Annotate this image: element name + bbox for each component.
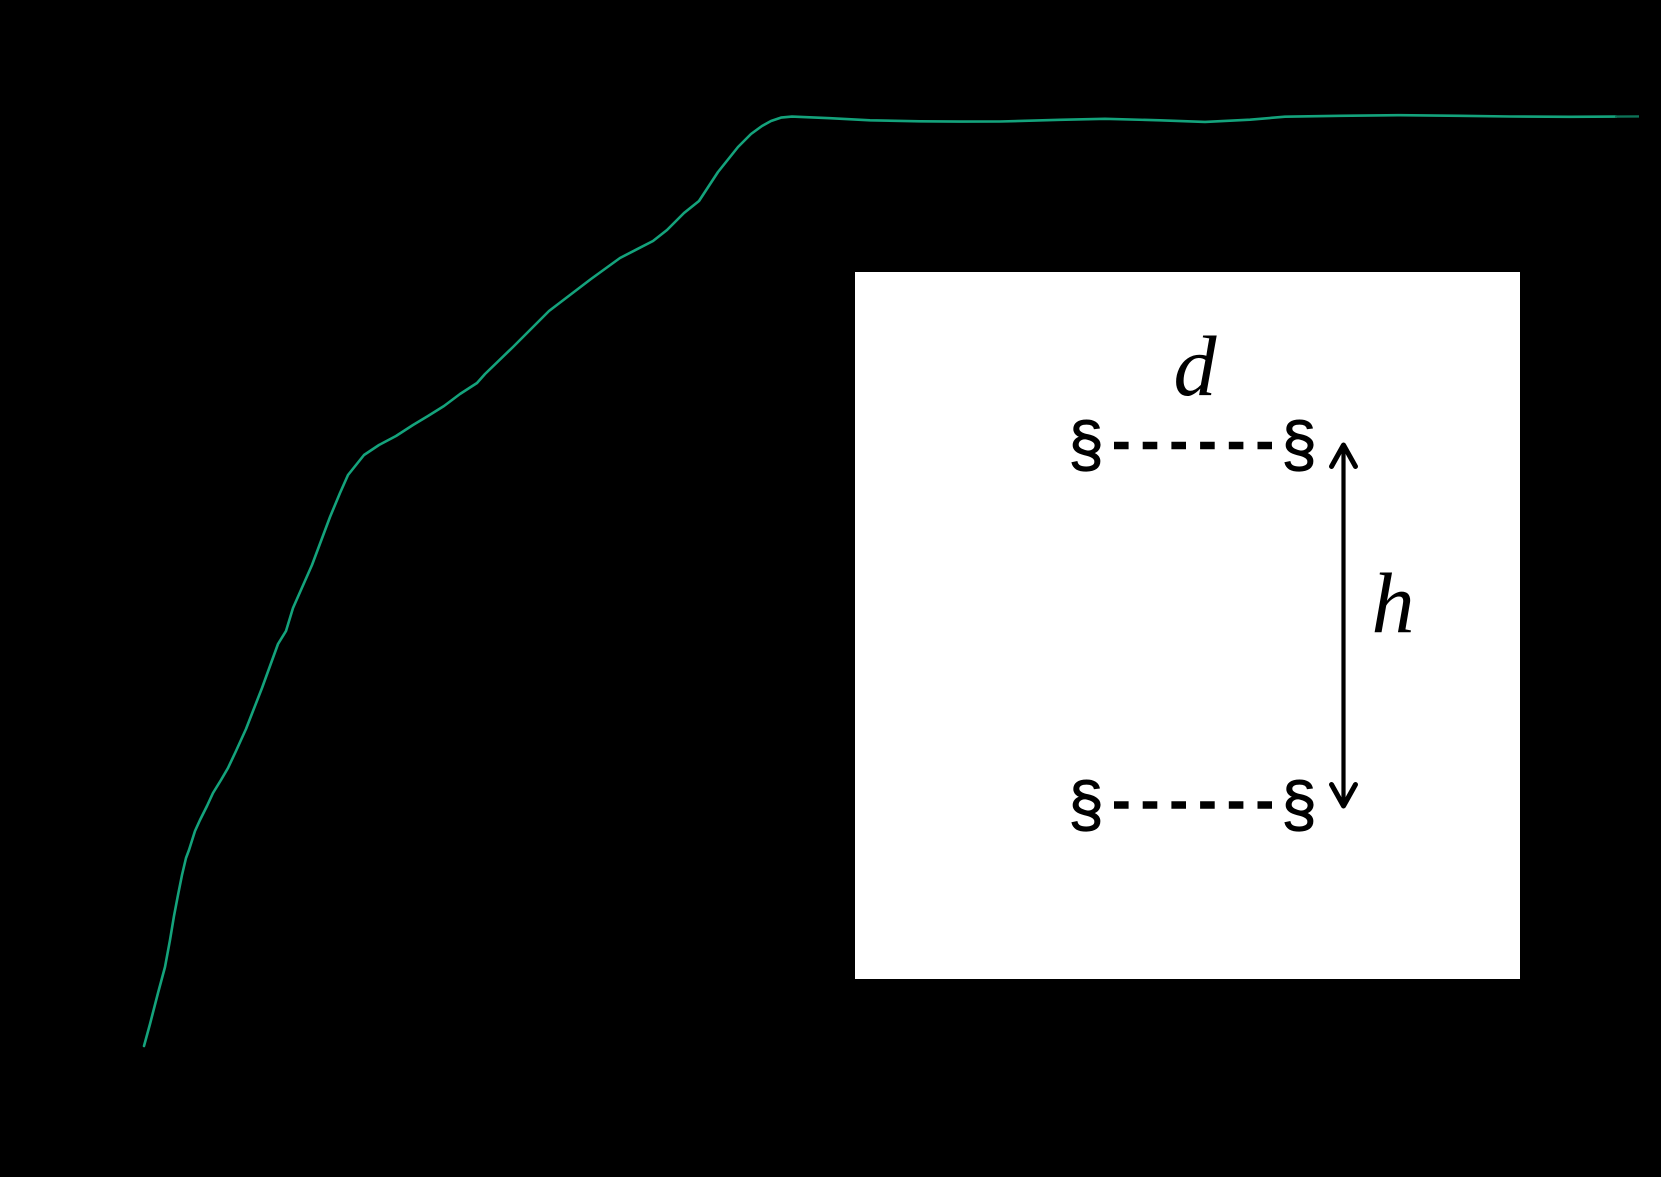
svg-text:§: §	[1068, 410, 1103, 480]
curve: green data line	[144, 115, 1616, 1046]
arrowhead bottom	[1332, 785, 1356, 807]
bottom dashed line	[1114, 801, 1272, 809]
arrowhead top	[1332, 445, 1356, 467]
svg-text:h: h	[1372, 555, 1415, 651]
svg-text:d: d	[1174, 318, 1218, 414]
svg-text:§: §	[1068, 770, 1103, 840]
double-headed arrow h: shaft	[1341, 449, 1345, 802]
wire: dim tail of curve	[1615, 115, 1639, 118]
svg-text:§: §	[1281, 770, 1316, 840]
top dashed line	[1114, 442, 1272, 450]
inset white box	[855, 272, 1520, 979]
svg-text:§: §	[1281, 410, 1316, 480]
